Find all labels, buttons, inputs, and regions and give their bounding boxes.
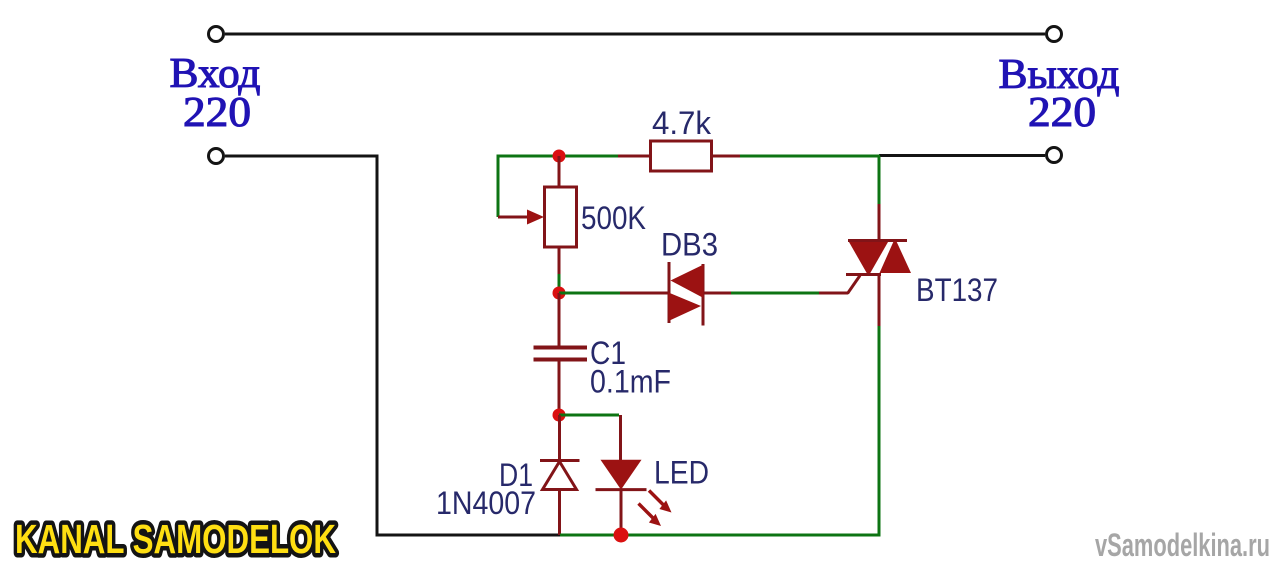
LED emission arrows	[639, 491, 672, 527]
triac BT137	[846, 241, 911, 275]
wire triac MT2 lead	[878, 156, 881, 240]
wire potentiometer wiper arrow	[498, 210, 544, 225]
wire diac to gate	[704, 276, 860, 294]
terminal input top	[209, 27, 224, 42]
junction node dot 2	[553, 287, 566, 300]
junction node dot 1	[553, 150, 566, 163]
junction node dot 3	[553, 409, 566, 422]
diode D1 1N4007	[540, 415, 580, 535]
svg-text:BT137: BT137	[916, 272, 998, 308]
svg-text:0.1mF: 0.1mF	[590, 364, 671, 400]
svg-text:220: 220	[183, 90, 251, 136]
wire top rail	[225, 33, 1045, 36]
svg-text:500K: 500K	[581, 200, 646, 236]
svg-text:1N4007: 1N4007	[436, 485, 536, 521]
svg-text:vSamodelkina.ru: vSamodelkina.ru	[1095, 527, 1270, 563]
svg-text:220: 220	[1028, 90, 1096, 136]
potentiometer 500K body	[545, 156, 577, 274]
terminal output bottom	[1047, 148, 1062, 163]
capacitor C1	[534, 293, 588, 415]
resistor 4.7k body	[651, 141, 712, 171]
wire resistor leads	[618, 155, 740, 158]
diac DB3	[669, 262, 704, 326]
wire output bottom	[879, 154, 1045, 157]
wire lower rail green	[560, 534, 881, 537]
svg-text:4.7k: 4.7k	[652, 105, 712, 141]
LED diode	[596, 460, 647, 535]
svg-text:LED: LED	[654, 455, 709, 491]
wire triac MT1 lead	[878, 275, 881, 536]
terminal output top	[1047, 27, 1062, 42]
wire node2 to diac	[559, 292, 668, 295]
svg-text:DB3: DB3	[661, 227, 718, 263]
wire pot to node 2 green	[558, 274, 561, 293]
terminal input bottom	[209, 149, 224, 164]
wire net upper row green	[498, 155, 880, 218]
junction node dot 4	[614, 528, 629, 543]
wire node3 to LED branch	[559, 415, 621, 460]
wire input bottom to lower rail	[225, 156, 560, 535]
svg-text:KANAL SAMODELOK: KANAL SAMODELOK	[15, 516, 336, 562]
